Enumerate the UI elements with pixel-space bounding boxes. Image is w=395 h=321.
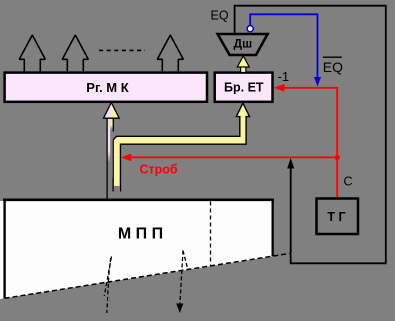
big data arrow МПП to Рг.МК : outlines: [107, 118, 113, 200]
svg-text:EQ: EQ: [211, 8, 229, 22]
torn-wire squiggle right with arrowhead: [176, 251, 187, 314]
generator ТГ box: [317, 199, 359, 235]
output bus arrow 2: [62, 35, 88, 74]
decoder Дш trapezoid: [218, 34, 268, 55]
svg-text:Строб: Строб: [140, 162, 178, 176]
big data arrow head: [104, 102, 120, 118]
label EQ-bar: [323, 57, 343, 75]
wire EQ-bar blue: [250, 14, 321, 86]
counter Бр.ЕТ box: [215, 73, 273, 102]
output bus arrow 1: [19, 35, 45, 74]
junction node red: [335, 155, 340, 160]
block МПП body: [0, 199, 274, 300]
svg-text:Дш: Дш: [234, 37, 253, 51]
dashed divider inside МПП: [210, 202, 212, 267]
svg-text:-1: -1: [278, 69, 290, 84]
yellow arrow Бр.ЕТ to Дш: [237, 56, 249, 73]
torn-wire squiggle left: [104, 257, 111, 314]
svg-text:Т Г: Т Г: [327, 210, 345, 224]
yellow elbow arrow МПП to Бр.ЕТ: [113, 103, 249, 191]
register Рг.МК box: [5, 73, 207, 102]
wire red strobe: [121, 154, 337, 162]
svg-text:EQ: EQ: [323, 59, 343, 75]
svg-text:Бр. ЕТ: Бр. ЕТ: [224, 81, 264, 95]
wire red decrement into Бр.ЕТ: [274, 84, 337, 197]
ellipsis dashed line between arrows: [99, 49, 145, 51]
svg-text:М П П: М П П: [118, 226, 163, 243]
svg-text:Рг. М К: Рг. М К: [86, 80, 128, 95]
mask hiding lower end of elbow fill: [114, 186, 120, 192]
dashed bottom edge of МПП: [5, 253, 291, 298]
big data arrow МПП to Рг.МК : shaft fills: [108, 118, 113, 178]
wire EQ black loop: [235, 6, 386, 264]
inversion bubble on Дш output: [247, 26, 253, 32]
output bus arrow 3: [157, 35, 183, 74]
svg-text:С: С: [344, 175, 353, 189]
